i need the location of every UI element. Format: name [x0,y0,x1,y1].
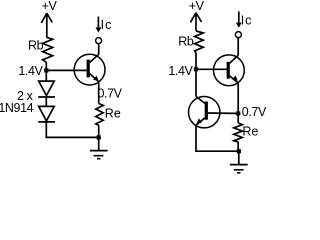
wire: Q2 base to 0.7V node (right) [208,112,236,114]
diode D2 (1N914) [39,106,55,121]
ground symbol (left) [90,139,108,159]
ground node junction dot (left) [97,135,101,139]
svg-text:+V: +V [189,0,205,13]
ground symbol (right) [230,153,248,173]
svg-text:1.4V: 1.4V [168,64,193,78]
svg-text:Re: Re [242,125,258,139]
Ic current arrow (right) [238,11,240,23]
transistor Q2 (right, mirrored) circle [189,97,220,128]
Ic current arrow (left) [97,17,99,29]
node 1.4V junction dot (left) [44,68,48,72]
wire: D2 down and across to ground node (left) [46,122,98,137]
svg-text:Rb: Rb [178,34,194,48]
diode D1 (1N914) [39,81,55,96]
node 1.4V junction dot (right) [194,67,198,71]
wire: Rb to 1.4V node (right) [195,53,197,70]
transistor Q1 (right) collector stroke [230,55,239,63]
resistor Re (left) zigzag [96,104,103,126]
node 0.7V junction dot (right) [236,111,240,115]
transistor Q1 (left) base bar [87,60,90,78]
wire: base of Q1 (left) [46,69,86,71]
resistor Re (right) top lead [237,116,239,124]
svg-text:Re: Re [105,107,121,121]
svg-text:1.4V: 1.4V [18,64,43,78]
transistor Q2 collector stroke [196,97,205,104]
wire: Q2 emitter down to ground wire (right) [196,126,239,152]
svg-text:Ic: Ic [241,14,253,28]
wire: emitter lead down to Re (left) [98,83,100,104]
transistor Q1 (right) emitter stroke with arrow [230,76,239,83]
wire: Q1 emitter down to 0.7V node (right) [237,83,239,113]
resistor Re (right) zigzag [234,123,243,142]
wire: 1.4V node down to diode D1 (left) [45,70,47,81]
transistor Q2 emitter stroke with arrow [196,118,205,125]
transistor Q1 (right) circle [214,55,245,86]
resistor Rb (right) zigzag [195,31,204,53]
wire: Re bottom to ground wire (left) [98,125,100,137]
collector terminal circle (right) [235,32,241,38]
+V arrow (left circuit) [41,13,52,37]
svg-text:Rb: Rb [28,39,44,53]
collector terminal circle (left) [96,38,102,44]
wire: collector lead to terminal (right) [237,38,239,56]
resistor Rb (left) zigzag [43,37,53,62]
wire: 1.4V node down to Q2 collector (right) [195,72,197,97]
+V arrow (right circuit) [191,13,202,31]
ground node junction dot (right) [237,149,241,153]
transistor Q1 (left) emitter stroke with arrow [90,74,99,82]
transistor Q1 (right) base bar [227,62,230,79]
svg-text:+V: +V [42,0,58,13]
wire: D1 to D2 [45,97,47,106]
transistor Q2 base bar [205,102,208,120]
svg-text:0.7V: 0.7V [98,86,123,100]
wire: Re bottom to ground node (right) [237,142,239,151]
wire: collector lead to terminal (left) [98,44,100,55]
svg-text:0.7V: 0.7V [242,105,267,119]
svg-text:Ic: Ic [101,18,113,32]
transistor Q1 (left) collector stroke [90,54,99,62]
wire: base of Q1 (right) [196,68,227,70]
transistor Q1 (left) circle [74,54,105,85]
wire: Rb to 1.4V node (left) [45,62,47,70]
svg-text:1N914: 1N914 [0,101,34,115]
